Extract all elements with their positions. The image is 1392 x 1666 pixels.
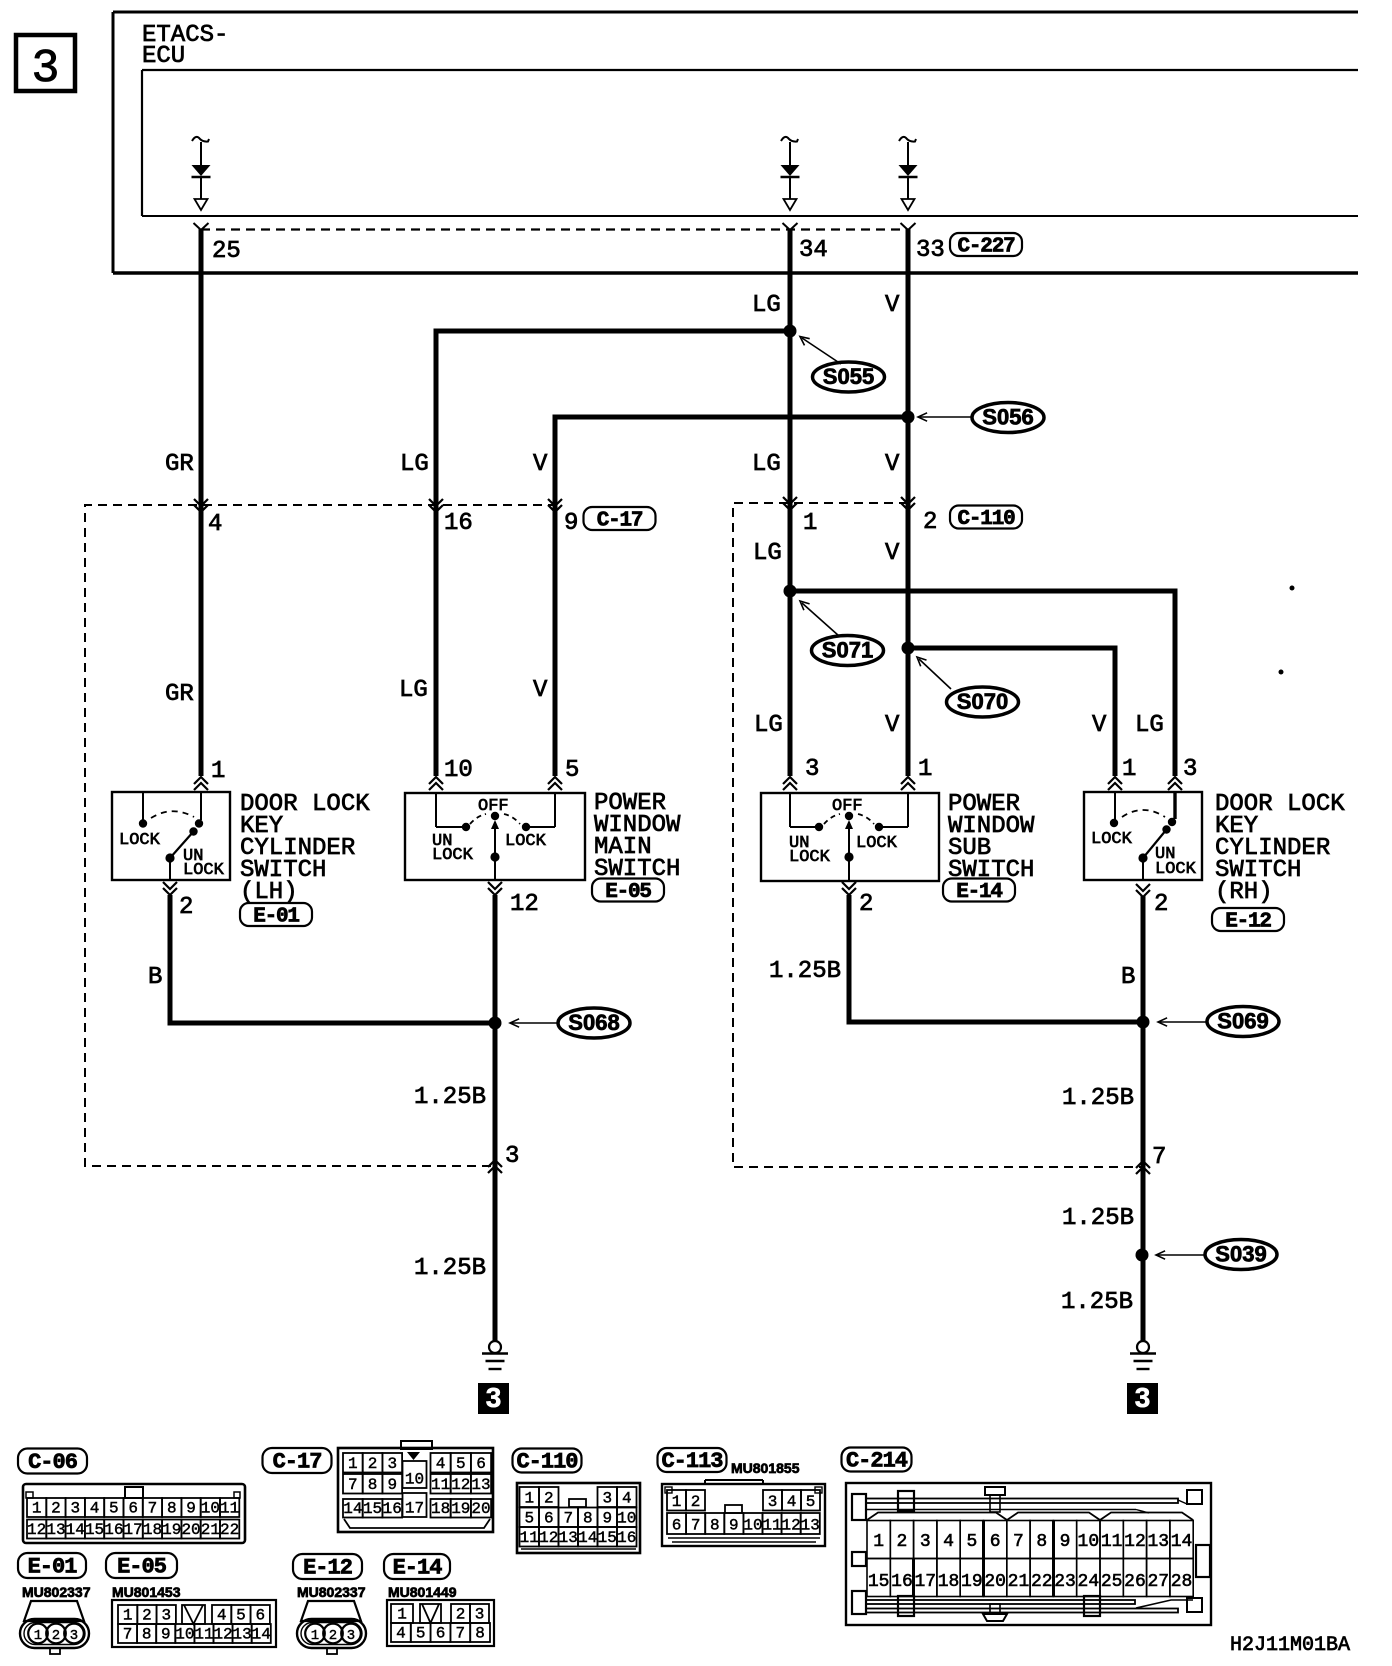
connector label E-12 (293, 1554, 362, 1579)
svg-text:7: 7 (1013, 1532, 1024, 1552)
svg-text:9: 9 (564, 510, 578, 537)
svg-text:4: 4 (943, 1532, 954, 1552)
svg-text:1: 1 (1122, 756, 1136, 783)
svg-text:11: 11 (520, 1529, 539, 1547)
svg-text:21: 21 (1008, 1572, 1030, 1592)
splice arrow S068 (512, 1022, 558, 1024)
svg-text:9: 9 (1060, 1532, 1071, 1552)
splice junction S055 (784, 325, 797, 338)
wire 1.25B main pin12 to ground (493, 895, 498, 1341)
pin chevron 3 ground (488, 1160, 502, 1173)
svg-text:25: 25 (212, 238, 241, 265)
diode D3 at pin 33 (899, 137, 916, 142)
svg-text:9: 9 (186, 1500, 196, 1518)
svg-text:17: 17 (405, 1500, 424, 1518)
svg-text:2: 2 (544, 1490, 554, 1508)
svg-text:16: 16 (104, 1521, 123, 1539)
splice label S056 (972, 403, 1044, 433)
svg-text:LG: LG (752, 451, 781, 478)
svg-text:1.25B: 1.25B (1062, 1085, 1134, 1112)
pin chevron 9 (548, 499, 562, 512)
connector label C-17 (584, 507, 656, 530)
pin chevron 33 (901, 223, 916, 230)
svg-text:B: B (148, 964, 162, 991)
svg-text:34: 34 (799, 237, 828, 264)
svg-text:SWITCH: SWITCH (948, 857, 1034, 884)
svg-text:1: 1 (34, 1628, 42, 1644)
connector C-214 body (846, 1483, 1211, 1625)
svg-text:14: 14 (66, 1521, 85, 1539)
power window main switch box (405, 793, 585, 880)
ground page ref 3 left (478, 1383, 509, 1414)
svg-text:E-01: E-01 (28, 1555, 78, 1580)
svg-text:7: 7 (123, 1626, 133, 1644)
svg-text:12: 12 (451, 1476, 470, 1494)
svg-text:2: 2 (142, 1607, 152, 1625)
svg-text:E-12: E-12 (303, 1556, 352, 1581)
pin chevron 2 LH (163, 882, 177, 895)
splice label S039 (1205, 1240, 1277, 1270)
svg-text:12: 12 (510, 891, 539, 918)
svg-text:S056: S056 (982, 405, 1033, 430)
connector E-14 body (387, 1600, 494, 1646)
wire LG branch S071 to RH pin 3 (790, 591, 1175, 776)
pin chevron 12 (488, 882, 502, 895)
svg-text:S068: S068 (568, 1010, 619, 1035)
LH switch arc (151, 811, 194, 818)
svg-text:5: 5 (966, 1532, 977, 1552)
svg-text:12: 12 (213, 1626, 232, 1644)
wire V branch S070 to RH pin 1 (908, 648, 1115, 776)
pin chevron 25 (194, 223, 209, 230)
connector label C-06 (18, 1449, 87, 1474)
connector C-227 dashed line (201, 228, 908, 230)
svg-text:13: 13 (559, 1529, 578, 1547)
svg-text:12: 12 (782, 1517, 801, 1535)
door lock key cylinder switch RH box (1084, 792, 1202, 880)
svg-text:18: 18 (431, 1500, 450, 1518)
main switch pin12 lead (494, 857, 496, 880)
connector C-06 body (23, 1484, 245, 1543)
wire V from pin 33 (906, 229, 911, 776)
svg-text:7: 7 (563, 1510, 573, 1528)
svg-text:11: 11 (762, 1517, 781, 1535)
svg-text:5: 5 (565, 757, 579, 784)
ground page ref 3 right (1127, 1383, 1158, 1414)
svg-text:LOCK: LOCK (1155, 860, 1197, 879)
svg-text:GR: GR (165, 451, 194, 478)
svg-text:6: 6 (128, 1500, 138, 1518)
svg-text:11: 11 (220, 1500, 239, 1518)
svg-text:24: 24 (1078, 1572, 1100, 1592)
svg-text:28: 28 (1171, 1572, 1193, 1592)
svg-text:1.25B: 1.25B (414, 1084, 486, 1111)
svg-text:12: 12 (1124, 1532, 1146, 1552)
svg-text:3: 3 (768, 1493, 778, 1511)
svg-text:8: 8 (1036, 1532, 1047, 1552)
svg-text:7: 7 (691, 1517, 701, 1535)
svg-text:3: 3 (805, 756, 819, 783)
splice junction S056 (902, 411, 915, 424)
svg-text:17: 17 (124, 1521, 143, 1539)
connector label E-14 (384, 1554, 450, 1579)
svg-text:6: 6 (990, 1532, 1001, 1552)
svg-text:LOCK: LOCK (789, 848, 831, 867)
svg-text:10: 10 (175, 1626, 194, 1644)
sub switch pin3 contact (789, 793, 791, 827)
pin chevron 2 sub (842, 882, 856, 895)
svg-text:10: 10 (1078, 1532, 1100, 1552)
svg-text:LG: LG (399, 677, 428, 704)
svg-text:13: 13 (471, 1476, 490, 1494)
pin chevron 1 sub (901, 777, 915, 790)
svg-text:LOCK: LOCK (1091, 830, 1133, 849)
svg-text:5: 5 (456, 1455, 466, 1473)
svg-text:C-06: C-06 (28, 1450, 77, 1475)
svg-text:S039: S039 (1215, 1242, 1266, 1267)
sub connector label E-14 (943, 879, 1015, 902)
splice label S070 (947, 687, 1019, 717)
main switch arm (494, 822, 496, 857)
svg-text:7: 7 (148, 1500, 158, 1518)
svg-text:8: 8 (710, 1517, 720, 1535)
svg-text:C-17: C-17 (273, 1450, 322, 1475)
svg-text:26: 26 (1124, 1572, 1146, 1592)
svg-text:4: 4 (787, 1493, 797, 1511)
svg-text:14: 14 (343, 1500, 362, 1518)
main switch pin10 contact (435, 793, 437, 827)
svg-text:LG: LG (1135, 712, 1164, 739)
svg-text:(RH): (RH) (1215, 879, 1273, 906)
connector E-05 body (112, 1600, 276, 1647)
RH connector label E-12 (1212, 908, 1284, 931)
RH switch arm (1162, 825, 1170, 833)
ground left (489, 1341, 501, 1353)
svg-text:2: 2 (923, 509, 937, 536)
RH switch pin3 contact (1173, 793, 1176, 819)
svg-text:2: 2 (859, 891, 873, 918)
svg-text:9: 9 (602, 1510, 612, 1528)
svg-text:15: 15 (85, 1521, 104, 1539)
svg-text:MU801453: MU801453 (112, 1584, 181, 1600)
svg-text:1.25B: 1.25B (1062, 1205, 1134, 1232)
svg-text:22: 22 (1031, 1572, 1053, 1592)
svg-text:3: 3 (505, 1143, 519, 1170)
svg-text:1: 1 (211, 758, 225, 785)
svg-text:11: 11 (194, 1626, 213, 1644)
svg-text:8: 8 (475, 1625, 485, 1643)
wire B LH pin2 to S068 (170, 895, 496, 1023)
pin chevron 34 (783, 223, 798, 230)
ETACS-ECU outer box (113, 11, 1358, 14)
svg-text:12: 12 (539, 1529, 558, 1547)
svg-text:8: 8 (167, 1500, 177, 1518)
svg-text:1.25B: 1.25B (1061, 1289, 1133, 1316)
sub switch pivot (845, 812, 853, 820)
svg-text:15: 15 (363, 1500, 382, 1518)
svg-text:2: 2 (179, 894, 193, 921)
svg-text:13: 13 (1147, 1532, 1169, 1552)
svg-text:S071: S071 (822, 638, 873, 663)
svg-text:2: 2 (51, 1500, 61, 1518)
svg-text:1: 1 (918, 756, 932, 783)
svg-text:10: 10 (444, 757, 473, 784)
splice arrow S069 (1160, 1021, 1207, 1023)
wire B RH pin2 to S069 (1141, 896, 1146, 1341)
svg-text:LOCK: LOCK (119, 831, 161, 850)
svg-text:5: 5 (416, 1625, 426, 1643)
ETACS-ECU inner box (142, 69, 1358, 71)
RH switch arc (1122, 810, 1165, 817)
wire V branch S056 to pin 9 (555, 417, 908, 776)
svg-text:7: 7 (348, 1476, 358, 1494)
svg-text:20: 20 (181, 1521, 200, 1539)
svg-text:1: 1 (803, 510, 817, 537)
svg-text:E-14: E-14 (956, 881, 1002, 904)
svg-text:2: 2 (897, 1532, 908, 1552)
svg-text:3: 3 (475, 1606, 485, 1624)
svg-text:S069: S069 (1217, 1009, 1268, 1034)
svg-text:4: 4 (208, 511, 222, 538)
connector label C-227 (950, 233, 1022, 256)
splice label S068 (558, 1008, 630, 1038)
splice label S055 (813, 362, 885, 392)
svg-text:1: 1 (311, 1628, 319, 1644)
connector E-12 body (301, 1601, 361, 1621)
svg-text:10: 10 (617, 1510, 636, 1528)
connector label C-17 (263, 1448, 332, 1473)
svg-text:5: 5 (236, 1607, 246, 1625)
splice arrow S070 (919, 659, 951, 689)
splice label S069 (1207, 1007, 1279, 1037)
svg-text:5: 5 (109, 1500, 119, 1518)
svg-text:2: 2 (52, 1628, 60, 1644)
svg-text:3: 3 (1183, 756, 1197, 783)
pin chevron 2 (901, 497, 915, 510)
connector label C-113 (658, 1448, 727, 1472)
svg-text:6: 6 (436, 1625, 446, 1643)
svg-text:C-113: C-113 (661, 1449, 723, 1474)
svg-text:LG: LG (752, 292, 781, 319)
pin chevron 16 (429, 499, 443, 512)
svg-text:33: 33 (916, 237, 945, 264)
svg-text:MU802337: MU802337 (297, 1584, 366, 1600)
main connector label E-05 (592, 879, 664, 902)
svg-text:1.25B: 1.25B (414, 1255, 486, 1282)
svg-text:V: V (533, 451, 548, 478)
LH switch LOCK contact (142, 793, 144, 820)
svg-text:E-14: E-14 (393, 1556, 443, 1581)
svg-text:C-17: C-17 (597, 510, 643, 533)
right door harness dashed outline (733, 503, 1143, 1167)
svg-text:E-01: E-01 (253, 906, 299, 929)
wire LG from pin 34 (788, 229, 793, 776)
sub switch arcs (824, 814, 840, 824)
svg-text:5: 5 (806, 1493, 816, 1511)
svg-text:9: 9 (729, 1517, 739, 1535)
svg-text:2: 2 (456, 1606, 466, 1624)
svg-text:3: 3 (70, 1628, 78, 1644)
svg-text:V: V (885, 451, 900, 478)
speck (1290, 586, 1295, 591)
svg-text:10: 10 (201, 1500, 220, 1518)
svg-text:GR: GR (165, 681, 194, 708)
pin chevron 10 (429, 777, 443, 790)
svg-text:B: B (1121, 964, 1135, 991)
svg-text:3: 3 (1135, 1382, 1151, 1413)
svg-text:S070: S070 (957, 689, 1008, 714)
svg-text:13: 13 (233, 1626, 252, 1644)
svg-text:6: 6 (476, 1455, 486, 1473)
diode D1 at pin 25 (192, 137, 209, 142)
svg-text:25: 25 (1101, 1572, 1123, 1592)
svg-text:23: 23 (1054, 1572, 1076, 1592)
svg-text:LG: LG (400, 451, 429, 478)
ground right (1137, 1341, 1149, 1353)
splice junction S070 (902, 642, 915, 655)
svg-text:3: 3 (347, 1628, 355, 1644)
svg-text:13: 13 (46, 1521, 65, 1539)
svg-text:MU802337: MU802337 (22, 1584, 91, 1600)
svg-text:E-12: E-12 (1225, 911, 1271, 934)
svg-text:MU801449: MU801449 (388, 1584, 457, 1600)
LH switch pin1 contact (200, 793, 202, 820)
svg-text:22: 22 (220, 1521, 239, 1539)
svg-text:20: 20 (471, 1500, 490, 1518)
svg-text:3: 3 (70, 1500, 80, 1518)
svg-text:C-110: C-110 (516, 1450, 577, 1475)
svg-text:3: 3 (602, 1490, 612, 1508)
svg-text:V: V (885, 540, 900, 567)
svg-text:8: 8 (142, 1626, 152, 1644)
svg-text:H2J11M01BA: H2J11M01BA (1230, 1634, 1350, 1657)
svg-text:16: 16 (383, 1500, 402, 1518)
connector C-110 body (517, 1483, 640, 1553)
svg-text:1: 1 (32, 1500, 42, 1518)
svg-text:C-227: C-227 (957, 236, 1015, 259)
svg-text:LOCK: LOCK (432, 846, 474, 865)
RH switch pin1 contact (1114, 793, 1116, 820)
LH connector label E-01 (240, 903, 312, 926)
pin chevron 1 RH (1108, 777, 1122, 790)
svg-text:4: 4 (217, 1607, 227, 1625)
LH switch arm (189, 827, 197, 835)
svg-text:4: 4 (622, 1490, 632, 1508)
svg-text:3: 3 (920, 1532, 931, 1552)
wire GR from pin 25 (199, 229, 204, 776)
connector label C-110 (513, 1449, 582, 1473)
svg-text:6: 6 (672, 1517, 682, 1535)
connector label C-214 (842, 1448, 912, 1472)
splice arrow S056 (920, 416, 971, 418)
svg-text:4: 4 (436, 1455, 446, 1473)
svg-text:3: 3 (486, 1382, 502, 1413)
svg-text:1: 1 (348, 1455, 358, 1473)
svg-text:2: 2 (329, 1628, 337, 1644)
svg-text:13: 13 (801, 1517, 820, 1535)
svg-text:20: 20 (984, 1572, 1006, 1592)
main switch pivot (491, 812, 499, 820)
RH switch pin2 lead (1142, 858, 1144, 880)
svg-text:27: 27 (1147, 1572, 1169, 1592)
svg-text:2: 2 (691, 1493, 701, 1511)
svg-text:MU801855: MU801855 (731, 1460, 800, 1476)
wire LG branch S055 to pin 16 (436, 331, 790, 776)
page number box 3 (16, 35, 75, 91)
svg-text:5: 5 (524, 1510, 534, 1528)
wire 1.25B sub pin2 to S069 (849, 895, 1144, 1022)
svg-text:1: 1 (397, 1606, 407, 1624)
svg-text:19: 19 (162, 1521, 181, 1539)
sub switch pin1 contact (907, 793, 909, 827)
main switch pin5 contact (554, 793, 556, 827)
svg-text:LG: LG (754, 712, 783, 739)
connector E-01 body (24, 1601, 84, 1621)
splice junction S071 (784, 585, 797, 598)
svg-text:S055: S055 (823, 364, 874, 389)
svg-text:4: 4 (396, 1625, 406, 1643)
svg-text:1.25B: 1.25B (769, 958, 841, 985)
svg-text:12: 12 (27, 1521, 46, 1539)
main switch arcs (470, 814, 486, 824)
svg-text:11: 11 (431, 1476, 450, 1494)
connector C-113 body (662, 1484, 825, 1546)
pin chevron 2 RH (1136, 884, 1150, 897)
sub switch arm (848, 822, 850, 857)
svg-text:V: V (533, 677, 548, 704)
svg-text:15: 15 (868, 1572, 890, 1592)
svg-text:6: 6 (544, 1510, 554, 1528)
svg-text:10: 10 (743, 1517, 762, 1535)
svg-text:7: 7 (455, 1625, 465, 1643)
splice label S071 (812, 636, 884, 666)
svg-text:16: 16 (617, 1529, 636, 1547)
svg-text:17: 17 (914, 1572, 936, 1592)
connector label E-01 (18, 1553, 86, 1578)
svg-text:8: 8 (583, 1510, 593, 1528)
svg-text:LG: LG (753, 540, 782, 567)
pin chevron 3 sub (783, 777, 797, 790)
connector label E-05 (106, 1553, 177, 1578)
door lock key cylinder switch LH box (112, 792, 230, 880)
svg-text:4: 4 (90, 1500, 100, 1518)
splice junction S039 (1136, 1249, 1149, 1262)
svg-text:C-110: C-110 (957, 508, 1015, 531)
svg-text:14: 14 (1171, 1532, 1193, 1552)
svg-text:18: 18 (143, 1521, 162, 1539)
svg-text:21: 21 (201, 1521, 220, 1539)
svg-text:V: V (885, 292, 900, 319)
svg-text:2: 2 (368, 1455, 378, 1473)
svg-text:3: 3 (387, 1455, 397, 1473)
svg-text:LOCK: LOCK (505, 832, 547, 851)
svg-text:16: 16 (891, 1572, 913, 1592)
splice arrow S071 (802, 603, 839, 636)
svg-text:14: 14 (578, 1529, 597, 1547)
svg-text:8: 8 (368, 1476, 378, 1494)
speck (1279, 670, 1284, 675)
svg-text:1: 1 (873, 1532, 884, 1552)
svg-text:V: V (885, 712, 900, 739)
pin chevron 3 RH (1168, 777, 1182, 790)
svg-text:11: 11 (1101, 1532, 1123, 1552)
pin chevron 4 (194, 499, 208, 512)
splice arrow S039 (1158, 1254, 1205, 1256)
connector C-17 body (338, 1448, 493, 1532)
svg-text:E-05: E-05 (117, 1555, 167, 1580)
svg-text:LOCK: LOCK (856, 834, 898, 853)
svg-text:15: 15 (598, 1529, 617, 1547)
